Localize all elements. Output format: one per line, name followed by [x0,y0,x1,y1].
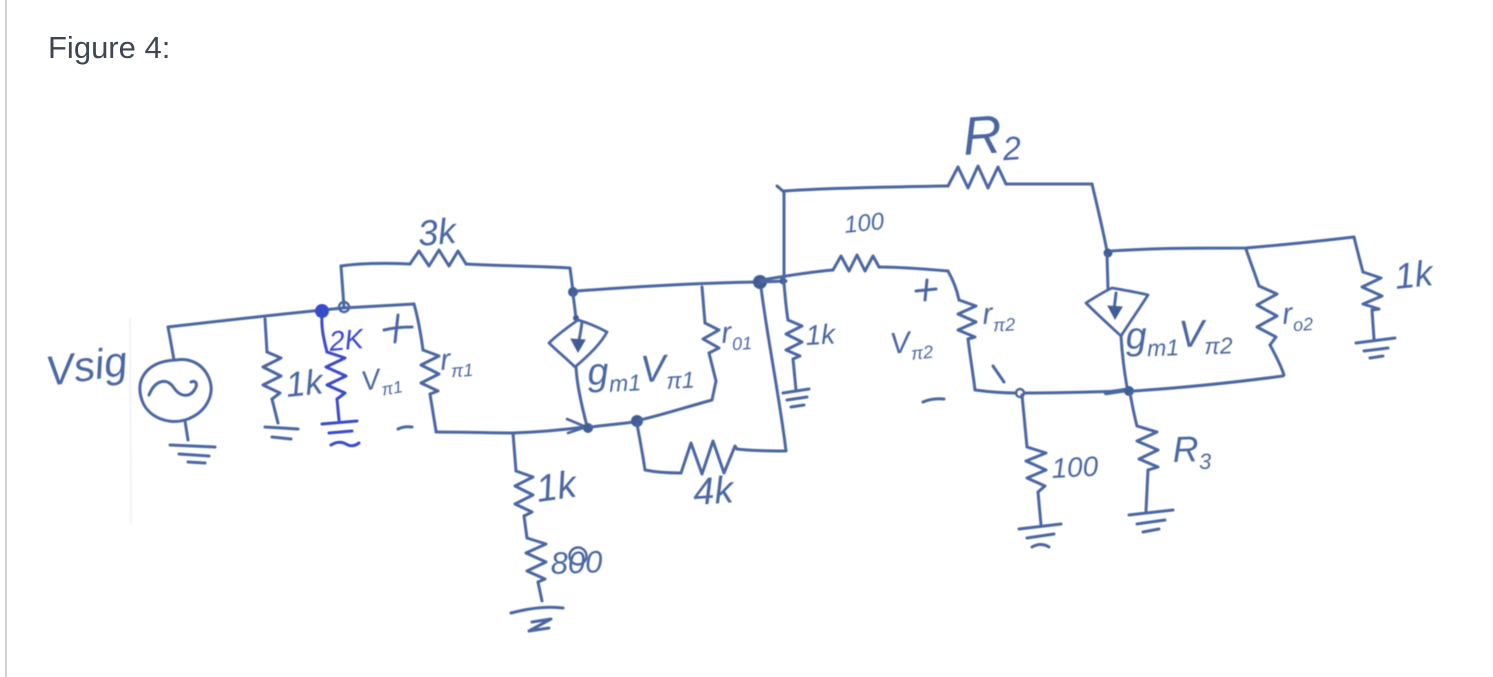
wire rpi2 bottom lead [968,339,975,390]
plus sign Vpi1 [384,315,412,342]
wire 100 emitter bottom lead [1038,492,1041,525]
label Vpi2 [888,324,934,366]
resistor 1k emitter [515,471,533,516]
resistor 4k [681,441,737,474]
svg-text:1k: 1k [533,463,581,510]
label 100 emitter [1051,451,1100,484]
wire 3k top right [466,264,573,291]
node A bright junction [315,304,329,318]
dependent source gm1Vpi1 diamond [549,320,607,367]
source Vsig top lead wire [168,327,174,360]
wire ro1 top lead [702,287,705,323]
wire 2K top lead [322,315,327,352]
wire output 1k top lead [1354,237,1363,272]
wire R2 right vertical [1092,184,1107,251]
wire node D to junction G [760,281,786,282]
svg-text:ro2: ro2 [1281,296,1314,336]
stray slash mark [993,366,1004,382]
wire main input row [168,304,414,327]
ground for output 1k [1356,338,1395,358]
svg-text:100: 100 [843,208,886,239]
label ro1 [720,315,753,355]
wire node F to ro1 bottom [640,381,716,420]
wire 1k emitter top lead [513,433,516,471]
svg-text:1k: 1k [1393,252,1437,297]
resistor 3k [410,250,466,266]
label rpi2 [982,296,1016,336]
resistor 1k stage2 [786,320,802,359]
svg-text:1k: 1k [284,362,326,405]
resistor R2 [948,166,1006,188]
wire ro2 bottom lead [1270,345,1284,375]
wire node H to output [1111,237,1354,251]
svg-text:1k: 1k [805,318,838,351]
node H junction [1104,249,1113,258]
arrow inside gm1Vpi2 [1108,293,1122,319]
wire 3k left vertical [341,266,344,307]
resistor ro2 [1257,286,1277,345]
node E junction [583,423,593,433]
wire 100 emitter top lead [1022,395,1027,447]
wire 1k input lead [265,319,267,352]
wire stage2 bottom left [975,390,1016,393]
wire diamond1 bottom lead [576,367,587,426]
svg-text:R3: R3 [1172,428,1213,475]
ground for R3 [1129,510,1173,532]
wire ro1 bottom lead [709,353,716,381]
wire stage1 bottom left [436,427,585,433]
wire diamond2 top lead [1107,255,1108,289]
ground for 2K [322,421,359,446]
svg-text:gm1Vπ2: gm1Vπ2 [1125,312,1233,362]
label 1k input [284,362,326,405]
node G junction [780,278,787,285]
svg-text:100: 100 [1051,451,1100,484]
label gm1Vpi1 [586,346,695,398]
node C junction [568,287,578,297]
resistor 2K [326,352,346,399]
svg-text:rπ1: rπ1 [439,342,474,382]
ground for 800 [511,607,563,631]
svg-text:r01: r01 [720,315,753,355]
wire R2 top left [784,186,948,191]
source Vsig [140,360,211,422]
label Vpi1 [359,360,404,403]
label 800 [550,544,603,581]
node I open junction [1016,389,1024,397]
wire node C to node D [577,282,757,291]
svg-text:gm1Vπ1: gm1Vπ1 [586,346,695,398]
wire R2 left vertical [777,186,784,281]
wire between 1k and 800 [524,516,527,538]
resistor ro1 [703,323,719,353]
ground for 1k input [265,427,298,439]
wire R3 top lead [1130,393,1137,426]
label 1k emitter [533,463,581,510]
resistor rpi1 [421,350,439,394]
left border line [5,0,7,677]
svg-text:3k: 3k [416,210,459,254]
wire rpi1 bottom lead [430,394,436,431]
plus sign Vpi2 [916,280,936,300]
label 2K [327,323,366,357]
ground for 100 emitter [1019,524,1061,547]
arrow inside gm1Vpi1 [571,322,585,352]
label R2 [961,103,1023,170]
minus sign Vpi2 [923,399,944,402]
node D big junction [753,275,767,289]
wire 1k stage2 bottom lead [793,359,796,390]
resistor rpi2 [958,300,976,339]
svg-text:Vπ2: Vπ2 [888,324,934,366]
ground for 1k stage2 [783,389,809,407]
resistor R3 [1137,426,1158,470]
wire 2K bottom lead [337,399,339,420]
wire 1k input bottom lead [272,399,278,423]
wire 4k right to node D [737,287,786,451]
label 3k [416,210,459,254]
resistor 100 emitter [1026,447,1046,492]
caption Figure 4: [48,30,170,66]
wire R2 top right [1006,183,1092,186]
node J junction [1124,386,1134,396]
node B open junction [339,302,349,312]
label rpi1 [439,342,474,382]
dependent source gm1Vpi2 diamond [1086,288,1148,336]
resistor 100 base [833,255,879,271]
resistor 1k output [1362,272,1382,310]
wire 3k top left [341,263,410,266]
arrowhead on stage2 bottom wire [1106,390,1126,393]
minus sign Vpi1 [398,427,412,429]
label 4k [692,469,737,514]
resistor 800 [526,538,546,582]
label 1k stage2 [805,318,838,351]
wire 100 base left [762,270,833,280]
arrowhead on stage1 bottom wire [567,419,586,433]
resistor 1k input [263,352,281,399]
svg-text:rπ2: rπ2 [982,296,1016,336]
label gm1Vpi2 [1125,312,1233,362]
wire rpi1 top lead [414,304,423,350]
label ro2 [1281,296,1314,336]
wire diamond1 top lead [573,294,579,321]
label R3 [1172,428,1213,475]
label 100 base [843,208,886,239]
label 1k output [1393,252,1437,297]
svg-text:R2: R2 [961,103,1023,170]
wire stage1 bottom right [591,422,634,427]
svg-text:4k: 4k [692,469,737,514]
wire diamond2 bottom lead [1121,336,1127,387]
ground for Vsig [170,445,215,463]
source Vsig bottom lead wire [185,421,188,440]
wire 100 base right [879,267,948,271]
wire R3 bottom lead [1146,470,1148,511]
label Vsig [43,337,130,395]
svg-text:Vsig: Vsig [43,337,130,395]
wire 1k stage2 top lead [784,283,788,320]
node F junction [631,415,643,427]
wire stage2 bottom mid [1024,391,1124,393]
wire rpi2 top lead [948,271,959,300]
wire ro2 top lead [1246,249,1259,286]
svg-text:Vπ1: Vπ1 [359,360,404,403]
svg-text:2K: 2K [327,323,366,357]
wire stage2 bottom right [1133,376,1283,391]
wire node F down to 4k [637,424,681,473]
wire 800 bottom lead [538,582,542,601]
svg-text:800: 800 [550,544,603,581]
wire output 1k bottom lead [1372,310,1374,339]
